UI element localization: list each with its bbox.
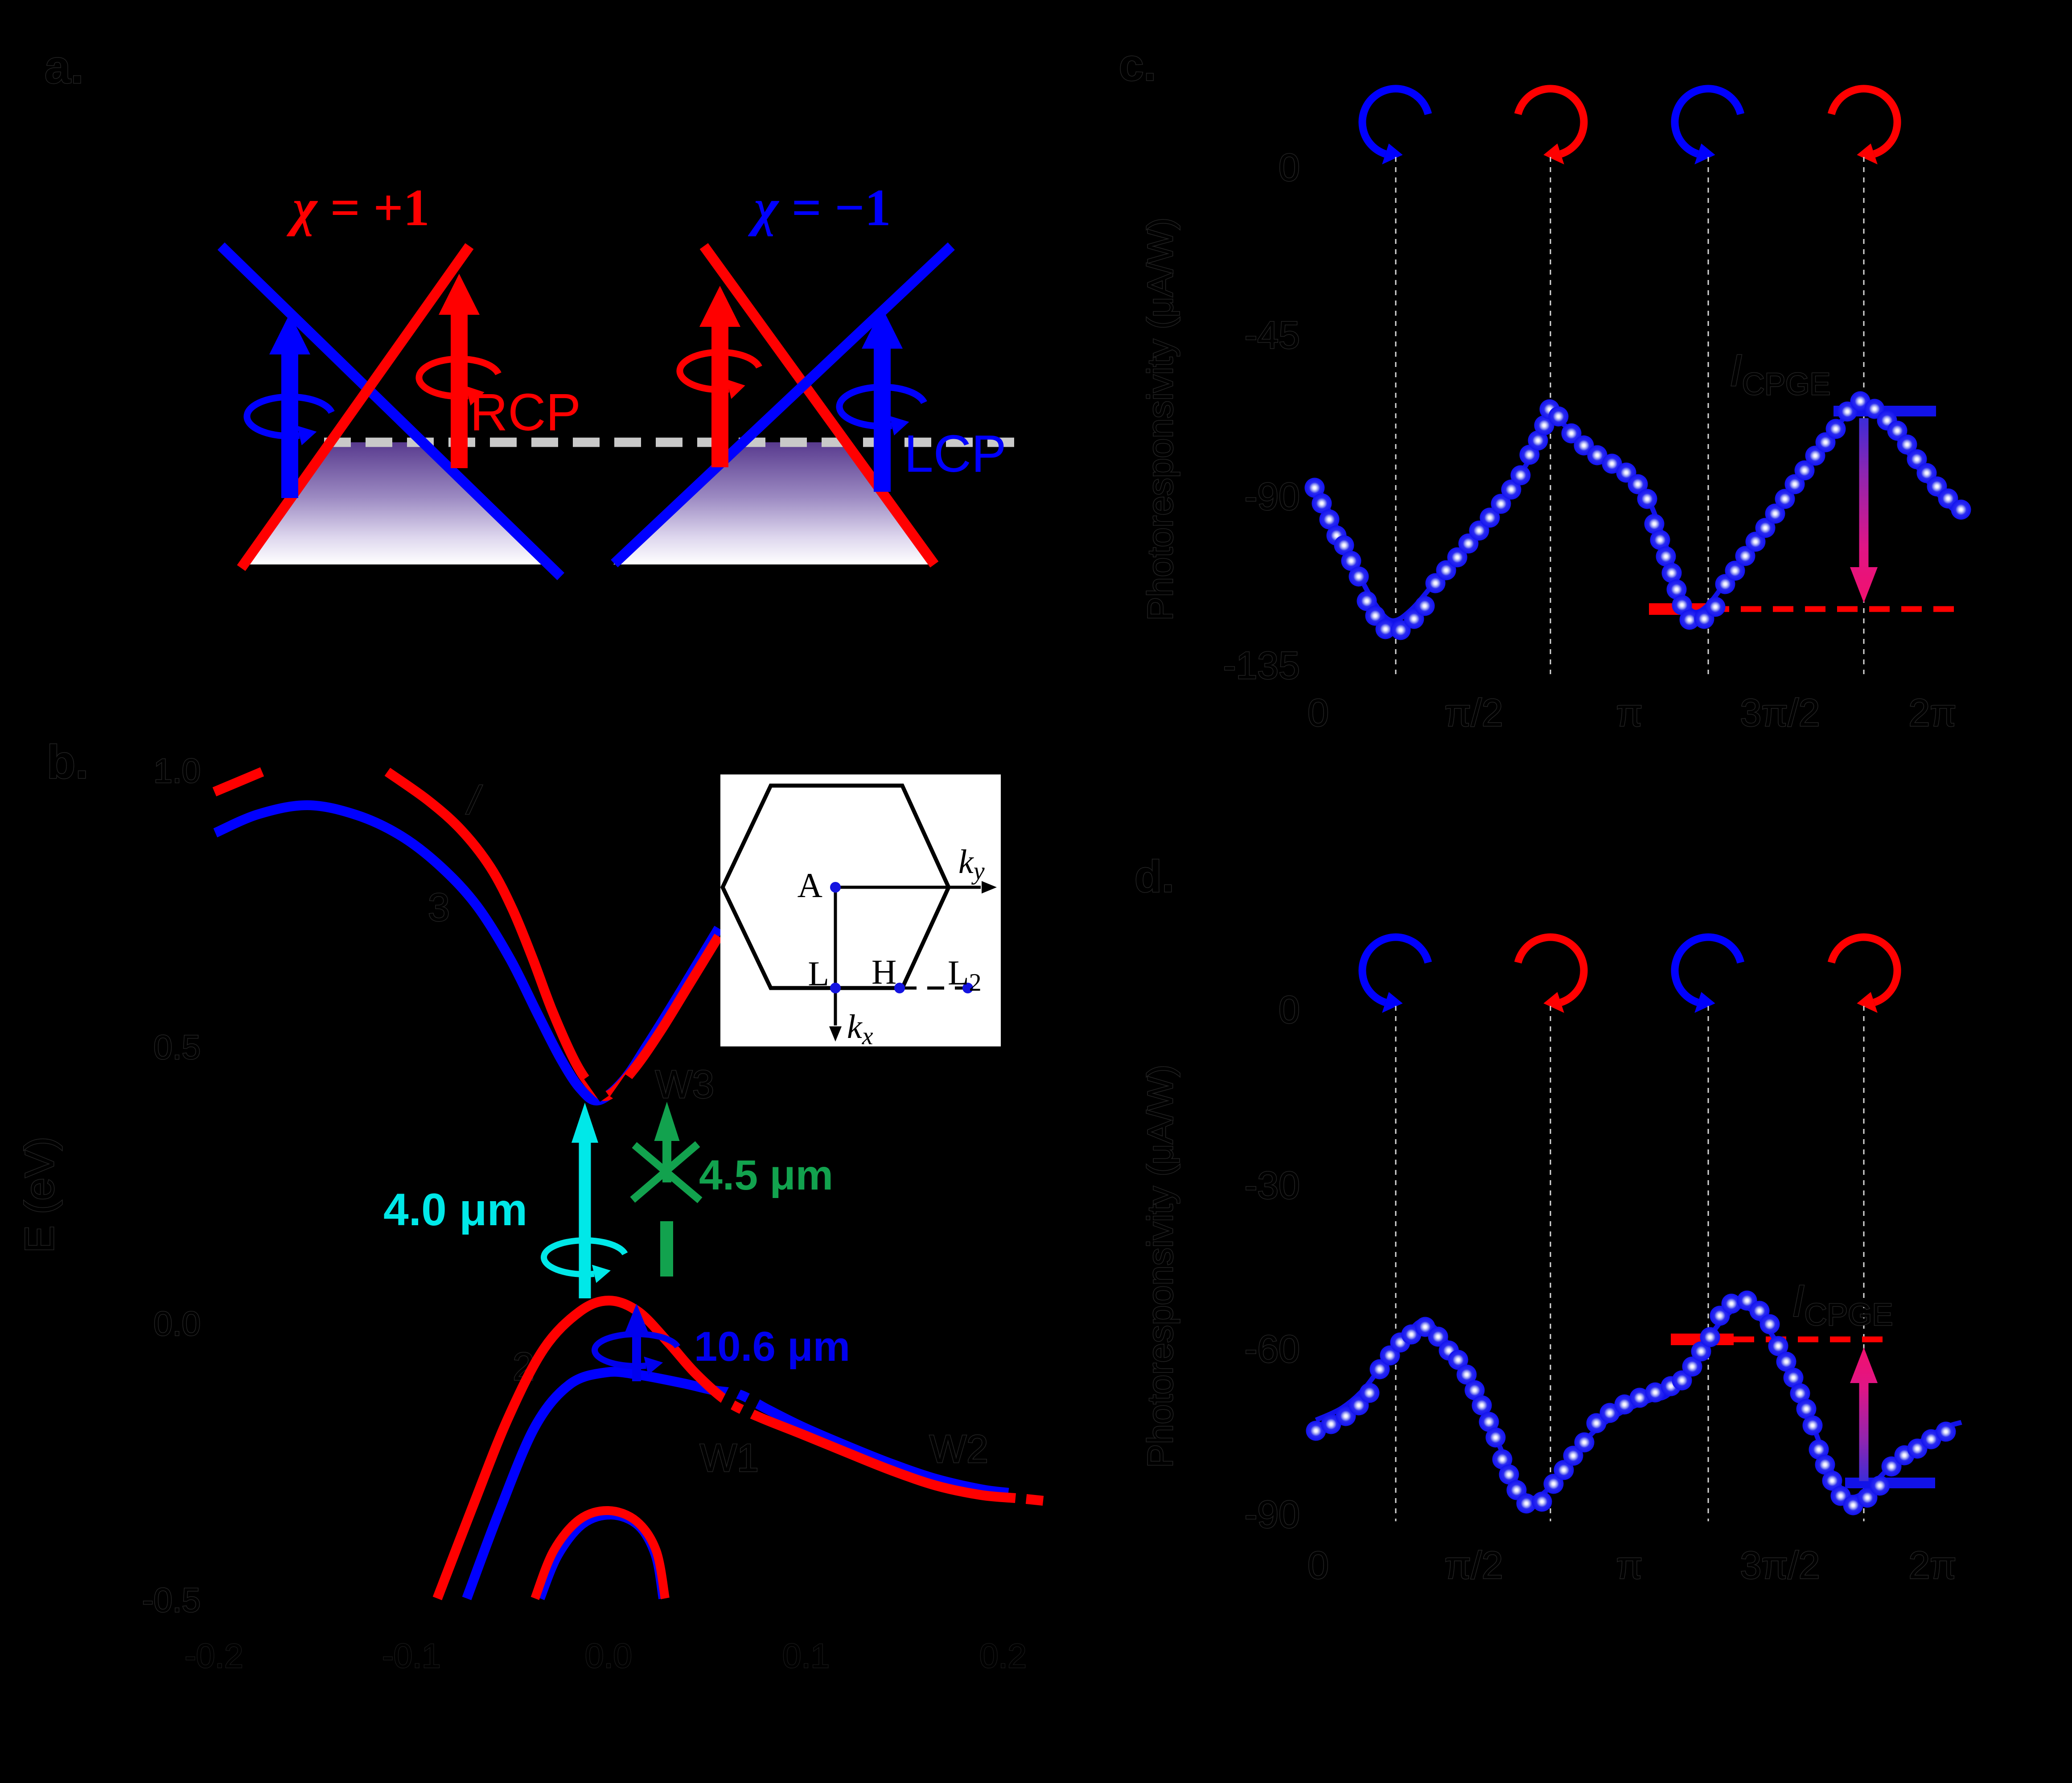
- svg-text:W3: W3: [655, 1062, 714, 1106]
- svg-text:0: 0: [1279, 146, 1300, 189]
- svg-text:2π: 2π: [1908, 692, 1956, 734]
- svg-text:L: L: [808, 954, 829, 993]
- svg-text:0.0: 0.0: [585, 1637, 632, 1675]
- svg-text:χ = +1: χ = +1: [286, 178, 429, 237]
- svg-text:-90: -90: [1245, 1493, 1300, 1536]
- svg-text:A: A: [798, 866, 822, 905]
- svg-text:0.5: 0.5: [153, 1029, 201, 1067]
- svg-text:3π/2: 3π/2: [1740, 1544, 1820, 1587]
- svg-text:b.: b.: [47, 736, 88, 788]
- svg-text:2π: 2π: [1908, 1544, 1956, 1587]
- svg-text:-0.5: -0.5: [142, 1581, 201, 1619]
- svg-text:Photoresponsivity (μA/W): Photoresponsivity (μA/W): [1140, 1065, 1180, 1468]
- svg-text:W2: W2: [929, 1427, 988, 1471]
- svg-text:-45: -45: [1245, 314, 1300, 357]
- svg-text:π/2: π/2: [1444, 692, 1503, 734]
- svg-text:10.6 μm: 10.6 μm: [694, 1323, 850, 1370]
- svg-text:0.0: 0.0: [153, 1305, 201, 1343]
- svg-text:4.0 μm: 4.0 μm: [383, 1184, 527, 1235]
- svg-text:E (eV): E (eV): [17, 1137, 62, 1253]
- svg-text:d.: d.: [1135, 852, 1174, 902]
- svg-text:4.5 μm: 4.5 μm: [699, 1152, 833, 1199]
- svg-text:3: 3: [428, 885, 450, 929]
- svg-text:W1: W1: [700, 1436, 759, 1480]
- svg-text:c.: c.: [1119, 40, 1156, 90]
- svg-text:π: π: [1616, 1544, 1642, 1587]
- svg-text:-30: -30: [1245, 1164, 1300, 1207]
- svg-text:0.2: 0.2: [979, 1637, 1027, 1675]
- svg-text:1.0: 1.0: [153, 752, 201, 790]
- svg-text:a.: a.: [45, 41, 84, 93]
- svg-text:-0.1: -0.1: [382, 1637, 441, 1675]
- svg-text:-60: -60: [1245, 1328, 1300, 1371]
- svg-text:RCP: RCP: [470, 383, 581, 442]
- svg-text:3π/2: 3π/2: [1740, 692, 1820, 734]
- svg-text:LCP: LCP: [904, 424, 1007, 483]
- svg-text:0: 0: [1307, 1544, 1329, 1587]
- svg-text:χ = −1: χ = −1: [748, 178, 891, 237]
- svg-text:π/2: π/2: [1444, 1544, 1503, 1587]
- svg-text:-90: -90: [1245, 475, 1300, 518]
- svg-text:Photoresponsivity (μA/W): Photoresponsivity (μA/W): [1140, 218, 1180, 621]
- svg-text:0: 0: [1279, 988, 1300, 1031]
- svg-text:π: π: [1616, 692, 1642, 734]
- svg-text:0.1: 0.1: [782, 1637, 830, 1675]
- svg-text:H: H: [872, 952, 896, 991]
- svg-text:-135: -135: [1223, 644, 1300, 687]
- svg-text:0: 0: [1307, 692, 1329, 734]
- svg-text:-0.2: -0.2: [185, 1637, 243, 1675]
